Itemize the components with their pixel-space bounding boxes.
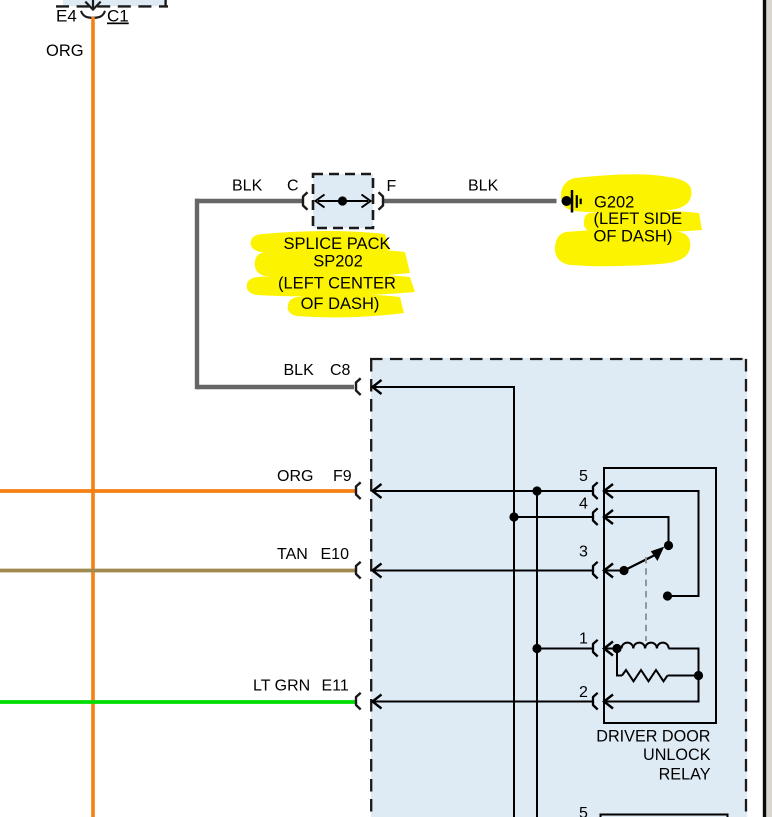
- connector arc F9: [356, 482, 361, 499]
- svg-text:DRIVER DOOR: DRIVER DOOR: [596, 728, 710, 746]
- wire coil to right node: [669, 649, 699, 674]
- relay pin 5 arc: [593, 482, 598, 499]
- svg-text:BLK: BLK: [468, 178, 499, 195]
- svg-text:C1: C1: [107, 7, 129, 26]
- svg-text:4: 4: [579, 496, 588, 513]
- wire E11 to relay pin 2: [373, 701, 594, 703]
- svg-text:SP202: SP202: [313, 253, 363, 271]
- second relay box (cut off at bottom): [601, 815, 728, 817]
- relay box: driver door unlock relay: [604, 468, 716, 723]
- terminal arrow into connector C1: [85, 0, 100, 10]
- svg-text:E11: E11: [322, 678, 349, 695]
- svg-text:(LEFT CENTER: (LEFT CENTER: [278, 275, 396, 293]
- svg-text:UNLOCK: UNLOCK: [643, 746, 711, 764]
- wire ORG horizontal to F9: [0, 489, 356, 493]
- connector C1 (in-line connector box, cut off at top): [56, 0, 168, 7]
- relay pin 4 arc: [593, 508, 598, 525]
- junction on bus 2 (pin 1 tap): [532, 644, 541, 653]
- junction on F9 wire: [532, 486, 541, 495]
- wire pin 1 to coil node: [604, 648, 618, 650]
- relay pin 5 arrow: [604, 484, 613, 498]
- relay coil (inductor): [622, 643, 669, 649]
- coil/resistor right node junction dot: [694, 671, 703, 680]
- connector arc C8: [356, 378, 361, 395]
- wire TAN horizontal to E10: [0, 569, 356, 573]
- terminal arrow E10: [373, 564, 382, 578]
- svg-text:ORG: ORG: [277, 468, 313, 485]
- svg-text:C: C: [287, 178, 299, 195]
- svg-text:5: 5: [579, 805, 588, 817]
- svg-text:LT GRN: LT GRN: [253, 678, 310, 695]
- svg-text:OF DASH): OF DASH): [594, 228, 673, 246]
- wire F9 to relay pin 5: [373, 490, 594, 492]
- wire BLK from splice to ground G202: [384, 199, 557, 203]
- ground G202 symbol: [562, 190, 581, 213]
- relay pin 3 arc: [593, 562, 598, 579]
- svg-text:SPLICE PACK: SPLICE PACK: [284, 235, 391, 253]
- junction on bus 1 (pin 4 tap): [509, 512, 518, 521]
- highlight marker over G202 note: [555, 174, 702, 266]
- connector arc E10: [356, 562, 361, 579]
- switch contact dot (pin 4 side): [664, 541, 673, 550]
- splice right connector arc F: [379, 192, 384, 209]
- svg-text:F9: F9: [333, 468, 352, 485]
- wire pin 3 to switch common: [604, 570, 624, 572]
- door module outline box (dashed, fill): [370, 358, 747, 817]
- svg-text:BLK: BLK: [232, 178, 263, 195]
- wire BLK trunk: top horizontal into splice: [195, 199, 302, 203]
- wire bus2 junction to relay pin 1: [537, 648, 593, 650]
- wire E10 to relay pin 3: [373, 570, 594, 572]
- svg-text:C8: C8: [330, 362, 351, 379]
- wire pin 5 to switch contact: [604, 491, 699, 596]
- svg-text:ORG: ORG: [46, 42, 84, 60]
- splice left connector arc C: [303, 192, 308, 209]
- svg-text:E4: E4: [56, 7, 77, 26]
- wire LT GRN horizontal to E11: [0, 700, 356, 704]
- vertical bus 2 from F9 junction: [536, 491, 538, 817]
- wire BLK trunk: vertical drop: [195, 199, 199, 389]
- relay actuator dashed link: [645, 557, 647, 641]
- relay pin 2 arrow: [604, 695, 613, 709]
- svg-text:(LEFT SIDE: (LEFT SIDE: [594, 210, 683, 228]
- svg-text:TAN: TAN: [277, 546, 308, 563]
- svg-text:OF DASH): OF DASH): [301, 295, 380, 313]
- wire bus1 junction to relay pin 4: [514, 516, 593, 518]
- svg-text:1: 1: [579, 631, 588, 648]
- svg-text:3: 3: [579, 544, 588, 561]
- svg-text:F: F: [387, 178, 397, 195]
- wire ORG vertical trunk: [91, 17, 95, 817]
- wire pin 4 to switch contact: [604, 517, 669, 543]
- relay pin 3 arrow: [604, 564, 613, 578]
- svg-text:G202: G202: [594, 194, 634, 212]
- resistor branch (parallel with coil): [617, 650, 699, 681]
- switch common dot: [619, 566, 628, 575]
- wire pin 2 to right node: [604, 676, 699, 702]
- splice pack SP202 symbol: [313, 174, 373, 228]
- terminal arrow C8: [373, 380, 382, 394]
- svg-text:BLK: BLK: [284, 362, 315, 379]
- relay pin 2 arc: [593, 693, 598, 710]
- switch blade with arrowhead: [624, 547, 664, 571]
- wire BLK trunk: bottom horizontal to C8: [197, 385, 354, 389]
- svg-text:RELAY: RELAY: [659, 766, 711, 784]
- svg-text:E10: E10: [321, 546, 350, 563]
- relay pin 1 arrow: [604, 642, 613, 656]
- connector cavity arc (E4 / C1): [81, 11, 105, 18]
- connector arc E11: [356, 693, 361, 710]
- relay pin 1 arc: [593, 640, 598, 657]
- switch contact dot (pin 5 side): [663, 591, 672, 600]
- svg-text:2: 2: [579, 684, 588, 701]
- coil node junction dot: [612, 644, 621, 653]
- wire from C8 to vertical bus 1: [373, 387, 515, 817]
- svg-text:5: 5: [579, 468, 588, 485]
- highlight marker over SPLICE PACK note: [247, 231, 415, 317]
- relay pin 4 arrow: [604, 510, 613, 524]
- terminal arrow E11: [373, 695, 382, 709]
- terminal arrow F9: [373, 484, 382, 498]
